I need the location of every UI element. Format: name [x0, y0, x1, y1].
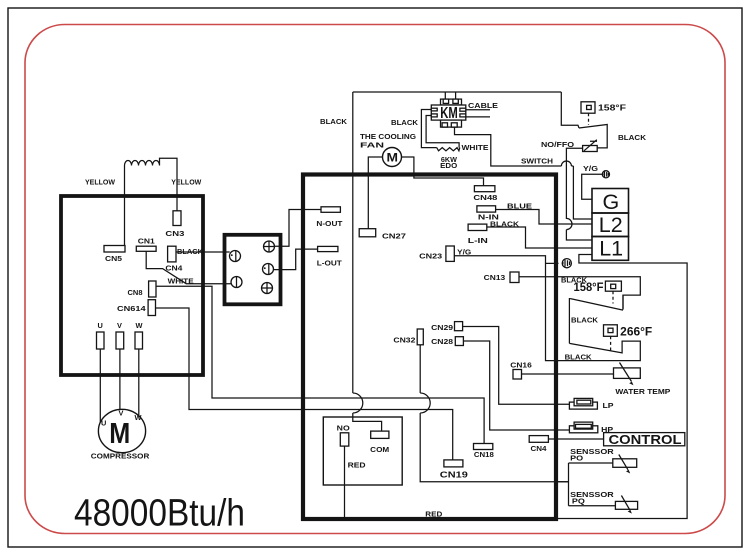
svg-text:M: M: [387, 151, 399, 165]
svg-text:CN28: CN28: [431, 337, 453, 346]
wire U to motor: [99, 349, 101, 423]
svg-text:WHITE: WHITE: [462, 143, 489, 152]
svg-text:CN3: CN3: [165, 229, 184, 238]
hop of switch wire over NO/FFO wire: [561, 161, 571, 166]
svg-text:CN4: CN4: [531, 444, 548, 453]
connector CN16: [513, 370, 522, 380]
wire ground to G terminal: [582, 174, 603, 199]
svg-text:PO: PO: [570, 453, 583, 462]
svg-text:RED: RED: [425, 510, 443, 519]
terminal block L2: [592, 213, 629, 237]
wire V to motor: [119, 349, 121, 410]
switch NO/FFO: [583, 140, 598, 152]
svg-text:L-IN: L-IN: [468, 236, 488, 245]
svg-text:CN27: CN27: [382, 232, 406, 241]
ground symbol (upper): [602, 171, 609, 178]
wire KM bottom to switch line: [455, 127, 574, 166]
svg-text:NO: NO: [337, 424, 350, 433]
connector CN3: [173, 211, 181, 226]
svg-text:EDO: EDO: [440, 161, 457, 170]
svg-text:NO/FFO: NO/FFO: [541, 140, 574, 149]
relay box: [323, 417, 402, 485]
wire L-IN to L1: [487, 227, 592, 248]
connector N-IN: [477, 206, 496, 212]
svg-text:CN4: CN4: [165, 264, 183, 273]
connector CN19: [444, 460, 463, 467]
sensors junction wire: [558, 463, 615, 506]
svg-text:KM: KM: [440, 105, 458, 122]
svg-text:M: M: [109, 418, 130, 450]
connector L-OUT: [318, 246, 338, 251]
wire KM to heater left: [421, 110, 436, 148]
connector CN32: [417, 329, 423, 345]
terminal E (lower-right screw): [262, 283, 273, 294]
svg-text:BLACK: BLACK: [320, 117, 348, 126]
thermostat 158F (right block): [574, 281, 622, 303]
svg-text:L2: L2: [599, 213, 623, 237]
svg-text:CN48: CN48: [473, 193, 497, 202]
svg-text:CONTROL: CONTROL: [609, 432, 682, 447]
contactor KM: [431, 92, 466, 127]
svg-text:W: W: [136, 321, 143, 330]
thermostat 266F: [604, 325, 653, 351]
wire CN8 to CN18 (h1): [156, 286, 484, 443]
wire terminal D to L-OUT: [274, 249, 318, 270]
wire CN28 to HP: [463, 341, 569, 430]
ground symbol (lower): [562, 259, 571, 268]
wire KM cable upper: [466, 109, 490, 111]
wire CN23 yellow-green to ground and thermal return: [454, 256, 558, 361]
svg-text:CN23: CN23: [419, 251, 442, 260]
connector N-OUT: [321, 207, 340, 213]
terminal block L1: [592, 237, 629, 261]
svg-text:L1: L1: [599, 237, 623, 261]
terminal block box: [225, 235, 281, 304]
terminal V pin: [116, 332, 124, 349]
wire WHITE CN1 to terminal B: [146, 251, 231, 283]
connector CN8: [149, 281, 156, 297]
svg-text:SWITCH: SWITCH: [521, 157, 553, 166]
svg-text:CN1: CN1: [138, 236, 155, 245]
wire CN4 to CONTROL: [548, 438, 603, 440]
wire CN29 to LP: [463, 327, 570, 405]
wire terminal C to N-OUT: [275, 210, 322, 247]
svg-text:U: U: [101, 419, 106, 428]
thermostat 158F cutout (top): [581, 102, 626, 125]
svg-text:PQ: PQ: [572, 497, 585, 506]
connector CN4 (left board): [168, 246, 176, 262]
wire 158F to 266F: [569, 299, 570, 344]
wire KM to heater right: [426, 116, 459, 148]
cooling fan motor M2: [383, 148, 402, 167]
svg-text:COMPRESSOR: COMPRESSOR: [91, 452, 150, 461]
connector CN48: [474, 186, 495, 192]
pressure switch HP: [569, 422, 613, 434]
svg-text:YELLOW: YELLOW: [171, 178, 201, 187]
connector CN1: [136, 246, 156, 251]
wire NO contact to bottom red bus: [344, 446, 346, 518]
svg-text:CABLE: CABLE: [468, 101, 498, 110]
relay COM contact: [371, 431, 389, 438]
svg-text:YELLOW: YELLOW: [85, 178, 115, 187]
terminal D (middle-right screw): [263, 264, 274, 275]
svg-text:W: W: [135, 413, 142, 422]
terminal U pin: [97, 332, 105, 349]
terminal W pin: [135, 332, 143, 349]
switch blade 158F right: [570, 295, 623, 310]
svg-text:COM: COM: [370, 445, 389, 454]
connector L-IN: [468, 224, 487, 230]
svg-text:CN614: CN614: [117, 304, 147, 313]
svg-text:BLACK: BLACK: [618, 133, 647, 142]
svg-text:Y/G: Y/G: [583, 164, 598, 173]
svg-text:266°F: 266°F: [620, 326, 652, 338]
terminal B (lower-left screw): [231, 277, 242, 288]
wire BLACK CN4 to terminal A: [176, 251, 230, 253]
connector CN5: [104, 246, 125, 253]
svg-text:158°F: 158°F: [574, 282, 604, 294]
svg-text:U: U: [98, 321, 103, 330]
terminal C (upper-right screw): [264, 241, 275, 252]
svg-text:CN13: CN13: [484, 273, 506, 282]
switch blade 158F cutout: [579, 125, 607, 148]
wire feed to 158F cutout: [561, 92, 579, 128]
terminal A (upper-left screw): [230, 251, 241, 262]
svg-text:CN8: CN8: [128, 288, 143, 297]
svg-text:L-OUT: L-OUT: [317, 259, 343, 268]
wire fan right to CN48: [402, 157, 484, 186]
wire KM cable lower: [466, 116, 490, 118]
svg-text:48000Btu/h: 48000Btu/h: [74, 493, 245, 535]
connector CN27: [359, 229, 376, 237]
connector CN29: [455, 322, 463, 331]
left control board box: [61, 196, 203, 375]
pressure switch LP: [569, 398, 613, 409]
compressor motor M1: [98, 409, 145, 452]
main center board box: [303, 175, 556, 520]
wire fan left to CN27: [368, 157, 382, 229]
relay NO contact: [340, 433, 349, 446]
wire top feed horizontal: [353, 91, 562, 93]
connector CN28: [455, 337, 463, 346]
sensor PO: [613, 455, 637, 474]
connector CN614: [148, 300, 155, 316]
wire NO/FFO to L1 (with hops): [566, 148, 592, 240]
svg-text:WATER TEMP: WATER TEMP: [615, 387, 670, 396]
wire CN32 to sensors: [420, 345, 568, 482]
svg-text:CN18: CN18: [474, 450, 494, 459]
svg-text:N-OUT: N-OUT: [316, 219, 343, 228]
wire L1 to right-side loop: [558, 255, 687, 519]
svg-text:BLACK: BLACK: [565, 352, 593, 361]
svg-text:CN19: CN19: [440, 470, 469, 480]
wire CN614 to CN19 (h2): [156, 308, 453, 460]
svg-text:V: V: [117, 321, 122, 330]
wire main black feed from top into relay COM: [353, 92, 382, 431]
connector CN23: [446, 246, 454, 261]
terminal block G: [592, 189, 629, 214]
water temp sensor: [614, 363, 671, 396]
wire CN16 to water temp sensor: [522, 373, 614, 375]
svg-text:158°F: 158°F: [598, 103, 626, 113]
connector CN18: [474, 444, 493, 450]
wire CN13 to 158F switch: [519, 277, 640, 310]
svg-text:G: G: [603, 190, 620, 214]
sensor PQ: [615, 496, 637, 514]
svg-text:CN16: CN16: [510, 360, 532, 369]
CONTROL box: [604, 433, 685, 446]
svg-text:BLACK: BLACK: [571, 315, 599, 324]
svg-text:CN29: CN29: [431, 323, 453, 332]
connector CN4 (main board): [529, 436, 548, 443]
svg-text:RED: RED: [348, 461, 367, 470]
svg-text:CN32: CN32: [393, 335, 415, 344]
wire W to motor: [138, 349, 140, 416]
svg-text:CN5: CN5: [105, 254, 122, 263]
connector CN13: [510, 272, 519, 283]
wire switch line to L2: [573, 166, 592, 219]
svg-text:V: V: [119, 409, 124, 418]
wire BLUE N-IN to L2: [496, 210, 592, 225]
svg-text:BLACK: BLACK: [391, 118, 419, 127]
inductor coil: [125, 158, 178, 245]
switch blade 266F: [558, 341, 640, 361]
resistor heater 6KW EDO: [437, 148, 460, 151]
svg-text:FAN: FAN: [360, 141, 384, 150]
svg-text:LP: LP: [603, 401, 614, 410]
